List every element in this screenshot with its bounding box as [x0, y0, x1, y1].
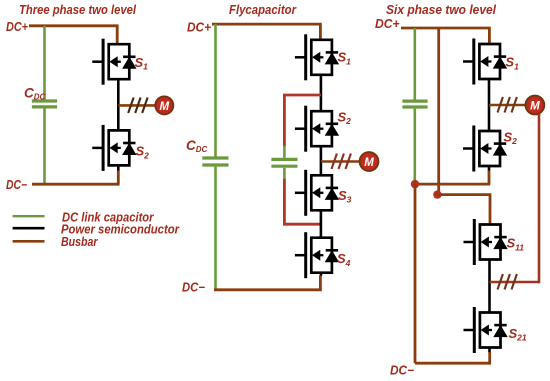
wire: DC- busbar (circuit 3) [415, 362, 491, 365]
svg-text:M: M [364, 157, 374, 169]
svg-text:DC−: DC− [6, 178, 28, 192]
svg-text:S3: S3 [338, 188, 352, 205]
wire: phase lead (circuit 3 lower) [490, 281, 540, 284]
svg-text:S21: S21 [509, 326, 527, 343]
phase slash marks (circuit 2) [332, 154, 351, 170]
wire: S1 source to S2 drain (circuit 2) [320, 75, 323, 110]
mosfet S11 (circuit 3) [464, 219, 507, 265]
svg-text:Six phase two level: Six phase two level [386, 2, 496, 17]
svg-text:S2: S2 [136, 144, 150, 161]
wire: DC- rail horizontal (circuit 3) [415, 183, 490, 186]
flying capacitor (circuit 2) [271, 146, 297, 180]
wire: lower phase vertical up to motor (circuit 3) [538, 114, 541, 284]
wire: DC+ feed to S11 drain (circuit 3) [437, 195, 490, 225]
motor M (circuit 3) [526, 96, 545, 115]
mosfet S2 (circuit 3) [463, 126, 506, 172]
wire: DC+ busbar (circuit 2) [212, 24, 320, 39]
svg-text:S1: S1 [135, 55, 149, 72]
mosfet S2 (circuit 1) [92, 125, 135, 171]
wire: phase lead to motor (circuit 3 upper) [489, 104, 526, 107]
svg-text:S1: S1 [505, 55, 519, 72]
mosfet S1 (circuit 2) [295, 34, 338, 80]
svg-text:M: M [530, 101, 540, 113]
wire: DC- left vertical (circuit 3) [414, 184, 417, 363]
junction dot: DC+ feed (circuit 3) [433, 190, 441, 198]
wire: DC+ busbar (circuit 1) [29, 26, 117, 44]
phase slash marks (circuit 1) [128, 98, 147, 114]
wire: DC+ feed to lower bridge (circuit 3) [437, 28, 440, 193]
svg-text:DC+: DC+ [375, 17, 400, 31]
flying capacitor top wire (circuit 2) [284, 95, 321, 147]
svg-text:CDC: CDC [186, 138, 208, 154]
mosfet S2 (circuit 2) [295, 106, 338, 152]
wire: phase lead to motor (circuit 2) [321, 160, 360, 163]
wire: S3 source to S4 drain (circuit 2) [320, 211, 323, 239]
wire: S2 source to S3 drain (circuit 2) [320, 147, 323, 176]
phase slash marks (circuit 3 upper) [498, 97, 517, 113]
svg-text:CDC: CDC [24, 86, 46, 102]
wire: S21 source to DC- busbar (circuit 3) [488, 348, 491, 353]
svg-text:DC−: DC− [390, 364, 415, 378]
mosfet S4 (circuit 2) [295, 232, 338, 278]
wire: S2 source to DC- busbar (circuit 1) [117, 166, 120, 171]
wire: S11 source to S21 drain (circuit 3) [488, 260, 491, 313]
capacitor CDC (circuit 2) [202, 24, 228, 290]
svg-text:Three phase two level: Three phase two level [19, 2, 136, 17]
wire: S4 source to DC- busbar (circuit 2) [320, 273, 323, 276]
mosfet S1 (circuit 3) [463, 39, 506, 85]
svg-text:DC−: DC− [182, 280, 206, 294]
svg-text:M: M [160, 101, 170, 113]
wire: DC+ busbar (circuit 3) [401, 28, 489, 45]
svg-text:Busbar: Busbar [61, 234, 98, 249]
wire: S2 source down to DC- rail (circuit 3) [488, 166, 491, 171]
wire: DC- busbar (circuit 1) [32, 183, 120, 186]
mosfet S21 (circuit 3) [464, 307, 507, 353]
flying capacitor bottom wire (circuit 2) [284, 179, 321, 225]
junction dot: capacitor / DC- rail (circuit 3) [411, 180, 419, 188]
svg-text:DC+: DC+ [6, 20, 29, 34]
motor M (circuit 2) [360, 152, 379, 171]
motor M (circuit 1) [155, 96, 173, 114]
legend: DC link capacitor sample line [13, 215, 45, 217]
svg-text:S1: S1 [338, 50, 352, 67]
mosfet S1 (circuit 1) [92, 39, 135, 85]
legend: busbar sample line [13, 240, 45, 243]
svg-text:S2: S2 [504, 129, 518, 146]
phase slash marks (circuit 3 lower) [498, 274, 517, 290]
wire: S1 source to S2 drain (circuit 3) [488, 79, 491, 131]
svg-text:S4: S4 [337, 251, 351, 268]
wire: DC- busbar (circuit 2) [214, 288, 322, 291]
svg-text:Flycapacitor: Flycapacitor [229, 2, 297, 17]
wire: S1 drain lead [117, 43, 120, 44]
svg-text:S2: S2 [338, 109, 352, 126]
mosfet S3 (circuit 2) [295, 170, 338, 216]
legend: power semiconductor sample line [13, 227, 45, 230]
wire: phase lead to motor (circuit 1) [118, 104, 155, 107]
capacitor CDC (circuit 1) [32, 26, 57, 184]
svg-text:S11: S11 [507, 236, 525, 253]
svg-text:DC+: DC+ [187, 20, 212, 34]
capacitor CDC (circuit 3) [402, 28, 427, 182]
wire: S1 source to S2 drain (phase node, circuit 1) [117, 79, 120, 130]
